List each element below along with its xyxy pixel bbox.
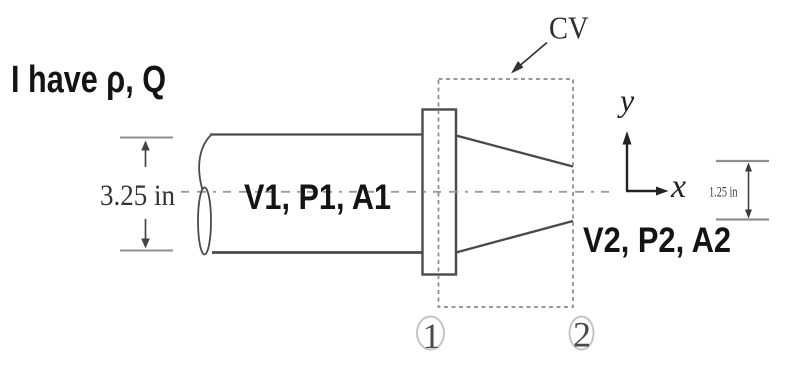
dimension 3.25 in bottom tick [120,250,173,252]
svg-text:CV: CV [549,10,589,46]
pipe inlet end curve [199,135,211,190]
centerline [181,191,612,193]
flange [423,110,457,275]
svg-text:1.25 in: 1.25 in [709,185,738,201]
control volume dashed box [439,79,574,307]
pipe top wall [210,133,423,135]
pipe bottom wall [212,251,423,254]
dimension 3.25 in down arrow [141,219,150,249]
station 1 circle [417,317,444,350]
svg-text:x: x [670,168,686,205]
dimension 1.25 in double arrow [745,163,752,219]
station 2 circle [570,317,594,350]
svg-text:3.25 in: 3.25 in [100,179,175,212]
svg-text:V1, P1, A1: V1, P1, A1 [244,178,391,217]
nozzle top wall [456,136,573,167]
svg-text:2: 2 [573,315,591,355]
dimension 1.25 in bottom tick [716,218,769,220]
x axis [626,187,669,196]
svg-text:y: y [617,82,635,118]
svg-text:1: 1 [423,316,441,356]
nozzle bottom wall [456,221,573,253]
dimension 1.25 in top tick [716,160,769,162]
pipe inlet end ellipse [198,188,211,255]
dimension 3.25 in top tick [120,137,173,139]
svg-text:I have ρ, Q: I have ρ, Q [11,59,166,101]
svg-text:V2, P2, A2: V2, P2, A2 [583,221,731,260]
dimension 3.25 in up arrow [141,141,150,168]
y axis [623,131,632,191]
CV pointer arrow [511,43,547,74]
